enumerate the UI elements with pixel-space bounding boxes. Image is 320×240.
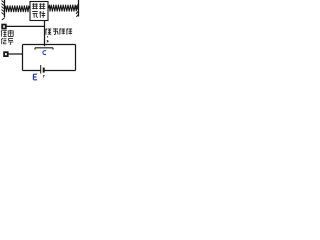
left wall fixed support bbox=[2, 0, 5, 20]
wire terminal1 to rod bbox=[6, 25, 45, 27]
battery short plate bbox=[43, 68, 45, 73]
box text 元件 row2 bbox=[32, 11, 45, 18]
loop left wire bbox=[22, 45, 24, 71]
movable plate top wire bbox=[23, 44, 76, 46]
battery label E bbox=[33, 74, 37, 80]
right spring K2 bbox=[48, 5, 79, 11]
rod wire from mass bbox=[44, 21, 46, 47]
loop right wire bbox=[75, 45, 77, 71]
battery long plate bbox=[40, 65, 42, 74]
wire terminal2 to loop bbox=[8, 53, 23, 55]
box sensitive element bbox=[30, 2, 48, 21]
box text 敏感 row1 bbox=[32, 3, 45, 9]
terminal 2 square bbox=[4, 52, 8, 56]
loop bottom wire left bbox=[23, 70, 41, 72]
leader dots bbox=[47, 36, 48, 42]
battery small mark bbox=[43, 75, 45, 78]
output text 信号 bbox=[1, 38, 13, 44]
right wall fixed support bbox=[76, 0, 79, 17]
loop bottom wire right bbox=[44, 70, 76, 72]
terminal 1 square bbox=[2, 25, 6, 29]
capacitor fixed plate bbox=[35, 48, 53, 50]
left spring K1 bbox=[5, 6, 31, 12]
label text movable plate bbox=[45, 28, 72, 34]
output text 输出 bbox=[1, 30, 13, 37]
capacitor label C bbox=[43, 51, 46, 55]
